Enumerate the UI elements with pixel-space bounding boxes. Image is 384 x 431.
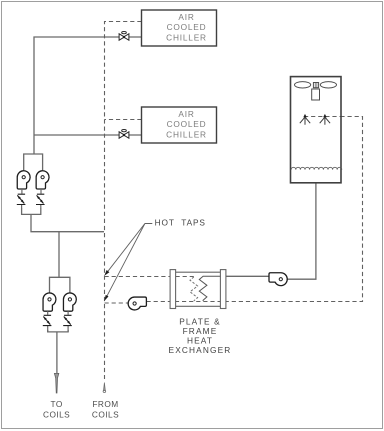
svg-text:COILS: COILS bbox=[92, 410, 119, 420]
svg-text:AIR: AIR bbox=[178, 109, 194, 119]
svg-text:EXCHANGER: EXCHANGER bbox=[169, 345, 232, 355]
svg-text:AIR: AIR bbox=[178, 12, 194, 22]
svg-text:PLATE &: PLATE & bbox=[179, 316, 221, 326]
svg-text:HOT TAPS: HOT TAPS bbox=[155, 218, 206, 228]
svg-text:FROM: FROM bbox=[92, 399, 118, 409]
svg-text:CHILLER: CHILLER bbox=[166, 33, 207, 43]
svg-text:TO: TO bbox=[50, 399, 62, 409]
svg-text:COOLED: COOLED bbox=[167, 22, 207, 32]
svg-text:CHILLER: CHILLER bbox=[166, 130, 207, 140]
svg-text:COOLED: COOLED bbox=[167, 119, 207, 129]
svg-text:COILS: COILS bbox=[43, 410, 70, 420]
